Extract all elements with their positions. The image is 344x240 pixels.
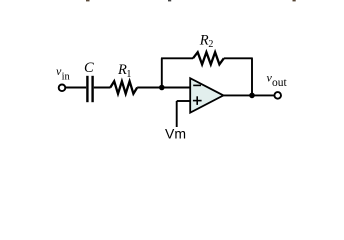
svg-text:C: C xyxy=(84,60,94,76)
op-amp U1 xyxy=(190,78,223,113)
op-amp minus sign xyxy=(193,84,201,86)
wire feedback left vertical xyxy=(161,58,163,87)
capacitor C xyxy=(87,76,92,102)
clipped text remnant top edge 1 xyxy=(86,0,90,1)
wire feedback right vertical xyxy=(251,58,253,95)
wire op-amp output xyxy=(223,94,274,96)
svg-text:R: R xyxy=(199,33,209,49)
svg-text:in: in xyxy=(62,71,71,82)
op-amp plus sign xyxy=(193,96,202,105)
wire top rail right xyxy=(224,57,253,59)
wire R1 to op-amp xyxy=(137,87,190,89)
node output junction dot xyxy=(249,93,255,99)
wire plus input vertical to Vm xyxy=(176,101,178,127)
resistor R2 xyxy=(193,52,224,64)
resistor R1 xyxy=(110,81,137,93)
node vout terminal xyxy=(274,92,281,99)
wire plus input horizontal xyxy=(177,100,190,102)
clipped text remnant top edge 3 xyxy=(293,0,296,1)
wire C to R1 xyxy=(94,87,111,89)
svg-text:Vm: Vm xyxy=(165,126,186,142)
svg-text:2: 2 xyxy=(208,39,213,50)
svg-text:out: out xyxy=(272,77,288,89)
node junction dot (inverting input node) xyxy=(159,85,165,91)
node vin terminal xyxy=(59,85,66,92)
clipped text remnant top edge 2 xyxy=(168,0,171,1)
wire vin to C xyxy=(65,87,86,89)
wire top rail left xyxy=(161,57,193,59)
svg-text:1: 1 xyxy=(126,69,131,80)
